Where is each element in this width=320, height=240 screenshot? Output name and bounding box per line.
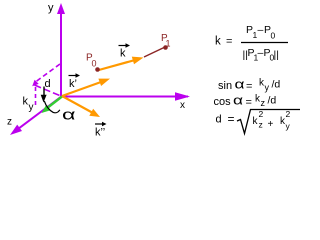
svg-text:–: –: [258, 24, 264, 36]
svg-text:2: 2: [286, 109, 291, 119]
k label: [119, 43, 131, 59]
svg-text:α: α: [233, 93, 244, 108]
svg-text:k’: k’: [69, 78, 77, 90]
dashed line from y-axis to vertex: [32, 64, 60, 86]
formula k equals: [215, 36, 232, 48]
svg-text:k: k: [120, 48, 126, 60]
svg-text:0: 0: [92, 59, 97, 69]
svg-text:=: =: [228, 112, 235, 126]
svg-text:y: y: [29, 102, 34, 113]
formula numerator P1-P0: [246, 24, 276, 41]
svg-text:=: =: [226, 36, 232, 48]
fraction bar: [241, 42, 288, 44]
P0 label: [86, 53, 97, 69]
svg-text:k: k: [215, 36, 221, 48]
z-axis: [10, 96, 62, 135]
svg-text:y: y: [265, 83, 270, 93]
x-axis: [62, 92, 190, 101]
svg-text:/d: /d: [268, 95, 277, 107]
svg-text:=: =: [246, 97, 252, 109]
svg-text:y: y: [286, 121, 291, 131]
svg-text:z: z: [7, 117, 12, 128]
y-axis: [57, 3, 65, 96]
formula d equals sqrt: [216, 112, 235, 126]
svg-text:1: 1: [166, 39, 171, 49]
dashed d line vertex to origin: [35, 85, 63, 97]
svg-text:α: α: [235, 77, 246, 92]
radicand kz2 + ky2: [253, 109, 291, 131]
svg-text:+: +: [268, 119, 274, 130]
dashed vertical ky line: [35, 87, 37, 107]
black down arrow: [41, 87, 47, 103]
green vector kz: [42, 97, 63, 114]
maroon segment to P1: [144, 48, 164, 58]
radical sign: [237, 110, 300, 134]
svg-text:||: ||: [274, 49, 279, 61]
svg-text:=: =: [246, 81, 252, 93]
svg-text:0: 0: [271, 31, 276, 41]
svg-text:z: z: [261, 98, 266, 108]
svg-text:y: y: [48, 2, 54, 14]
k-doubleprime label: [95, 122, 107, 139]
svg-text:sin: sin: [218, 80, 232, 92]
svg-text:/d: /d: [272, 79, 281, 91]
P1 label: [161, 33, 171, 49]
formula denominator ||P1-P0||: [243, 47, 279, 63]
alpha angle arc: [44, 101, 60, 113]
svg-text:2: 2: [259, 109, 264, 119]
svg-text:d: d: [45, 78, 51, 90]
k-prime label: [69, 73, 81, 90]
svg-text:cos: cos: [214, 96, 232, 108]
orange vector k-prime: [62, 79, 110, 96]
svg-text:α: α: [62, 107, 76, 124]
formula sin alpha: [218, 77, 280, 93]
point P1: [163, 45, 168, 50]
svg-text:d: d: [216, 114, 222, 126]
svg-text:k’’: k’’: [95, 127, 105, 139]
svg-text:x: x: [180, 100, 185, 111]
svg-text:z: z: [259, 120, 263, 130]
point P0: [95, 67, 100, 72]
orange vector k: [97, 57, 144, 71]
ky label: [23, 96, 34, 114]
formula cos alpha: [214, 93, 277, 109]
orange vector k-doubleprime: [62, 96, 100, 117]
